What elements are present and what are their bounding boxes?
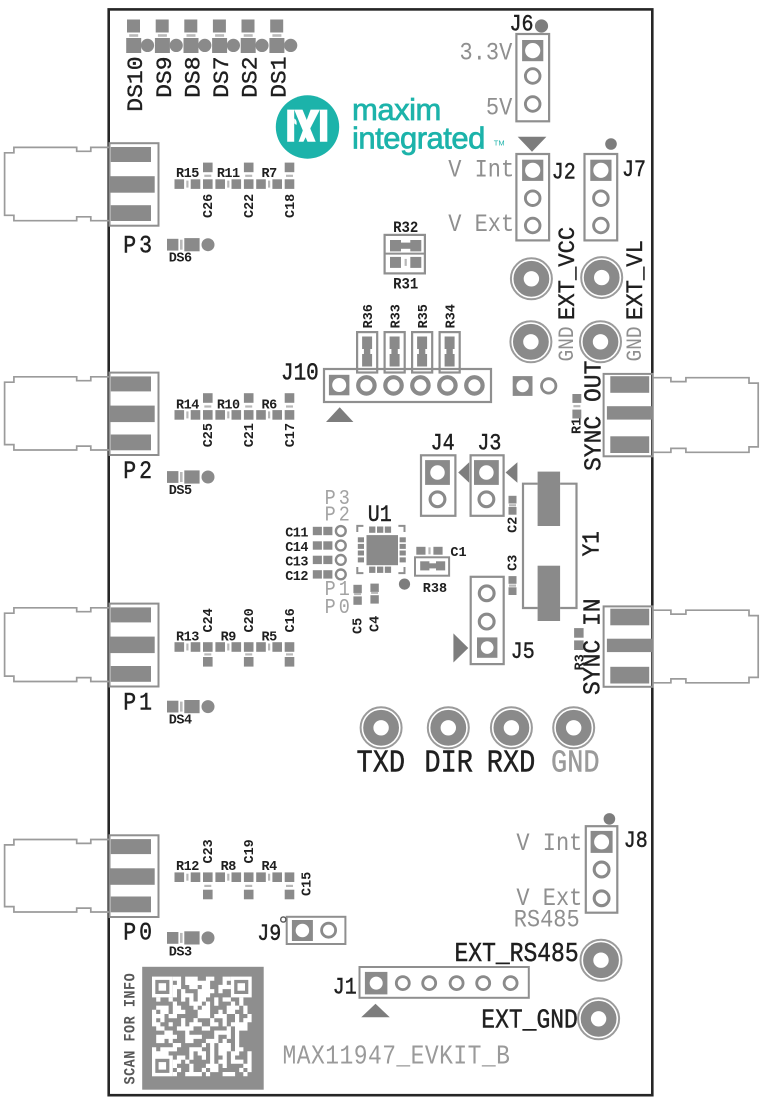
svg-text:MAX11947_EVKIT_B: MAX11947_EVKIT_B (283, 1042, 511, 1072)
svg-text:R35: R35 (416, 304, 432, 328)
resistor R33 (385, 332, 405, 372)
capacitor C4 (370, 584, 378, 604)
svg-text:RS485: RS485 (514, 906, 580, 935)
svg-text:R6: R6 (262, 397, 277, 413)
dot near J6 (535, 19, 548, 32)
svg-text:R34: R34 (443, 304, 459, 328)
capacitor C12 (313, 570, 346, 580)
header J6 (516, 34, 549, 121)
svg-text:C18: C18 (283, 194, 299, 218)
svg-text:R14: R14 (176, 397, 199, 413)
svg-text:GND: GND (551, 746, 600, 781)
svg-text:C23: C23 (201, 839, 217, 863)
capacitor C26 (203, 163, 213, 189)
pad EXT_RS485 (581, 940, 622, 981)
svg-text:J2: J2 (552, 160, 576, 186)
pad TXD (361, 707, 402, 748)
capacitor C19 (244, 872, 254, 899)
resistor network R32/R31 outline (385, 235, 425, 274)
svg-text:C4: C4 (367, 616, 383, 632)
LED DS4 (167, 700, 215, 713)
resistor R34 (440, 332, 460, 372)
connector P1 (SMA) (5, 604, 159, 687)
capacitor C15 (285, 872, 295, 899)
svg-text:TXD: TXD (357, 746, 406, 781)
crystal Y1 pad 1 (538, 472, 561, 526)
svg-text:P2: P2 (325, 502, 353, 527)
svg-text:R36: R36 (361, 304, 377, 328)
header J10 (324, 369, 491, 402)
resistor R31 (390, 257, 421, 268)
svg-text:J6: J6 (510, 12, 534, 38)
svg-text:R9: R9 (221, 629, 236, 645)
svg-text:SYNC IN: SYNC IN (580, 598, 608, 695)
svg-text:J5: J5 (511, 640, 535, 666)
svg-text:C19: C19 (242, 839, 258, 863)
svg-text:DS6: DS6 (169, 250, 192, 266)
pin1 arrow J1 (361, 1004, 390, 1018)
capacitor C25 (203, 393, 213, 420)
resistor R5 (256, 642, 282, 652)
svg-text:DS8: DS8 (181, 57, 206, 98)
svg-text:R7: R7 (262, 166, 277, 182)
header J1 (360, 967, 529, 998)
pad DIR (428, 707, 469, 748)
pad GND (below EXT_VL) (580, 321, 621, 362)
resistor R1 (572, 394, 581, 419)
header J5 (471, 577, 504, 664)
svg-text:integrated: integrated (352, 121, 485, 156)
dot near U1 pin1 (399, 579, 410, 590)
svg-text:DS9: DS9 (152, 57, 177, 98)
LED DS2 (241, 20, 269, 54)
header J9 (287, 917, 346, 944)
svg-text:C24: C24 (201, 608, 217, 632)
svg-text:R5: R5 (262, 629, 277, 645)
pad EXT_VL (581, 257, 622, 298)
svg-text:RXD: RXD (487, 746, 536, 781)
svg-text:SCAN FOR INFO: SCAN FOR INFO (123, 973, 140, 1085)
capacitor C22 (244, 163, 254, 189)
svg-text:V Int: V Int (516, 830, 582, 859)
degree mark near J9 (281, 917, 286, 922)
svg-text:R33: R33 (388, 304, 404, 328)
svg-text:DS2: DS2 (238, 57, 263, 98)
pin1 arrow J3 (506, 462, 518, 483)
connector P0 (SMA) (5, 835, 159, 917)
pin1 arrow for J2 (518, 137, 547, 152)
resistor R15 (175, 179, 201, 189)
svg-text:P1: P1 (123, 689, 155, 717)
resistor R14 (175, 410, 201, 420)
board outline (109, 9, 653, 1095)
resistor R36 (357, 332, 377, 372)
svg-text:R13: R13 (176, 629, 199, 645)
svg-text:P0: P0 (123, 919, 155, 947)
QR code (scan for info) (142, 967, 264, 1090)
svg-text:C3: C3 (505, 555, 521, 571)
svg-text:U1: U1 (368, 503, 392, 529)
svg-text:C26: C26 (201, 194, 217, 218)
svg-text:R15: R15 (176, 166, 199, 182)
svg-text:R10: R10 (217, 397, 240, 413)
LED DS10 (126, 20, 154, 54)
svg-text:C5: C5 (350, 618, 366, 634)
pin1 arrow J10 (326, 407, 353, 422)
jumper pad pair (right of J10) (513, 376, 556, 396)
resistor R11 (215, 179, 241, 189)
resistor R9 (215, 642, 241, 652)
capacitor C20 (244, 642, 254, 666)
pad GND (below EXT_VCC) (510, 321, 551, 362)
svg-text:C15: C15 (299, 872, 315, 896)
header J2 (516, 154, 549, 240)
resistor R38 (415, 557, 449, 575)
svg-text:DIR: DIR (424, 746, 473, 781)
svg-text:EXT_RS485: EXT_RS485 (455, 939, 579, 969)
svg-text:C21: C21 (242, 423, 258, 447)
svg-text:DS5: DS5 (169, 483, 192, 499)
capacitor C11 (313, 526, 346, 536)
svg-text:J7: J7 (622, 158, 646, 184)
svg-text:R11: R11 (217, 166, 240, 182)
capacitor C23 (203, 872, 213, 899)
resistor R10 (215, 410, 241, 420)
dot above J8 (604, 813, 616, 825)
connector P3 (SMA) (5, 143, 159, 226)
pad GND (553, 707, 594, 748)
svg-text:J4: J4 (431, 431, 455, 457)
LED DS1 (269, 20, 297, 54)
svg-text:R38: R38 (423, 581, 447, 597)
svg-text:EXT_GND: EXT_GND (481, 1006, 578, 1036)
capacitor C13 (313, 555, 346, 565)
pad RXD (491, 707, 532, 748)
resistor R8 (215, 872, 241, 882)
resistor R32 (390, 240, 421, 251)
svg-text:C2: C2 (505, 517, 521, 533)
svg-text:C12: C12 (285, 569, 308, 585)
svg-text:V Int: V Int (448, 156, 514, 185)
LED DS6 (167, 238, 215, 251)
svg-text:C1: C1 (450, 545, 466, 561)
svg-text:GND: GND (624, 326, 649, 361)
svg-text:R8: R8 (221, 859, 236, 875)
LED DS9 (155, 20, 183, 54)
svg-text:J1: J1 (333, 975, 357, 1001)
svg-text:DS1: DS1 (267, 57, 292, 98)
resistor R4 (256, 872, 282, 882)
header J8 (586, 826, 618, 913)
svg-text:J9: J9 (257, 922, 281, 948)
svg-text:DS4: DS4 (169, 712, 192, 728)
pad EXT_VCC (511, 258, 552, 299)
svg-text:SYNC OUT: SYNC OUT (581, 361, 609, 471)
svg-text:J3: J3 (477, 431, 501, 457)
resistor R12 (175, 872, 201, 882)
svg-text:Y1: Y1 (578, 531, 606, 556)
resistor R13 (175, 642, 201, 652)
svg-text:EXT_VCC: EXT_VCC (555, 227, 582, 320)
capacitor C24 (203, 642, 213, 666)
LED DS3 (167, 931, 215, 944)
svg-text:C22: C22 (242, 194, 258, 218)
svg-text:TM: TM (494, 139, 505, 148)
crystal Y1 pad 2 (538, 566, 561, 621)
svg-text:C20: C20 (242, 608, 258, 632)
crystal Y1 outline (523, 484, 577, 608)
dot above J7 (605, 138, 617, 150)
svg-text:J8: J8 (624, 829, 648, 855)
header J4 (421, 455, 455, 516)
pin1 arrow J4 (458, 462, 469, 483)
svg-text:DS10: DS10 (124, 57, 149, 112)
capacitor C16 (285, 642, 295, 666)
svg-text:C25: C25 (201, 423, 217, 447)
capacitor C1 (416, 547, 442, 555)
connector SYNC_OUT (SMA) (604, 374, 759, 456)
resistor R3 (574, 628, 584, 650)
svg-text:J10: J10 (281, 359, 319, 387)
maxim integrated logo (276, 95, 339, 158)
svg-text:R32: R32 (393, 221, 418, 238)
capacitor C5 (353, 585, 361, 605)
svg-text:3.3V: 3.3V (460, 39, 513, 68)
svg-text:R4: R4 (262, 859, 277, 875)
pad EXT_GND (578, 998, 619, 1039)
svg-text:5V: 5V (486, 94, 513, 123)
resistor R6 (256, 410, 282, 420)
svg-text:P0: P0 (325, 595, 353, 620)
resistor R35 (412, 332, 432, 372)
svg-text:V Ext: V Ext (448, 211, 514, 240)
LED DS8 (184, 20, 212, 54)
capacitor C14 (313, 541, 346, 551)
connector SYNC_IN (SMA) (604, 606, 759, 686)
header J3 (471, 455, 504, 516)
capacitor C3 (509, 576, 517, 595)
svg-text:P2: P2 (123, 458, 155, 486)
svg-text:R12: R12 (176, 859, 199, 875)
svg-text:EXT_VL: EXT_VL (623, 240, 650, 320)
resistor R7 (256, 179, 282, 189)
svg-text:DS3: DS3 (169, 944, 192, 960)
capacitor C18 (285, 163, 295, 189)
capacitor C17 (285, 393, 295, 420)
LED DS7 (212, 20, 240, 54)
capacitor C21 (244, 393, 254, 420)
svg-text:DS7: DS7 (210, 57, 235, 98)
svg-text:C16: C16 (283, 608, 299, 632)
svg-text:R31: R31 (393, 277, 418, 294)
connector P2 (SMA) (5, 373, 159, 455)
capacitor C2 (509, 496, 517, 515)
svg-text:C17: C17 (283, 423, 299, 447)
IC U1 (QFN) (357, 526, 406, 573)
pin1 arrow J5 (453, 633, 468, 662)
LED DS5 (167, 470, 215, 483)
header J7 (585, 154, 618, 240)
svg-text:P3: P3 (123, 232, 155, 260)
svg-text:GND: GND (556, 326, 581, 361)
